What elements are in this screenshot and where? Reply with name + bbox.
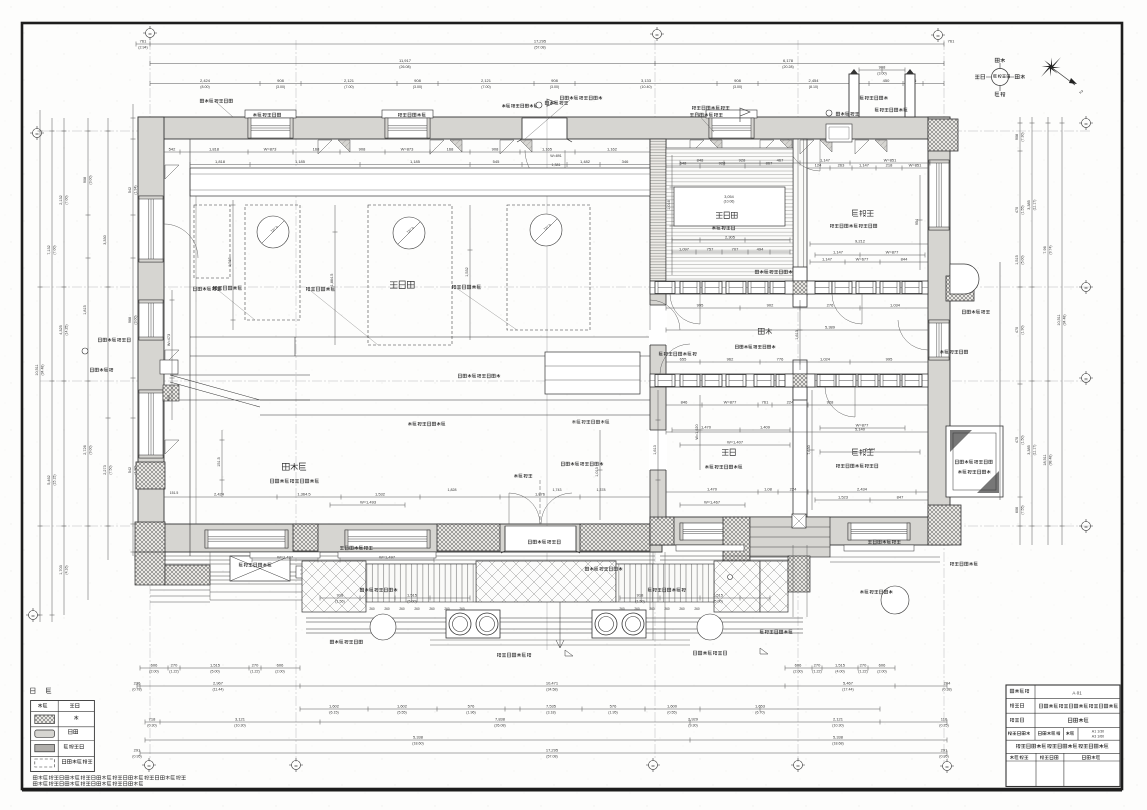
fence line at entrance xyxy=(539,480,541,524)
tree circle far right xyxy=(881,586,909,614)
svg-text:W=1,493: W=1,493 xyxy=(360,500,377,505)
svg-text:(1.55): (1.55) xyxy=(1021,205,1025,214)
svg-text:1,600: 1,600 xyxy=(667,704,678,709)
room label corridor (廊下) xyxy=(758,328,772,335)
svg-text:(2.00): (2.00) xyxy=(149,670,158,674)
svg-text:(9.30): (9.30) xyxy=(688,724,697,728)
svg-text:1,532: 1,532 xyxy=(465,267,469,277)
interior dim row corridor lower xyxy=(666,360,928,365)
room label electrical room (電機室) xyxy=(282,463,306,471)
svg-text:168: 168 xyxy=(313,147,320,152)
svg-text:1,024: 1,024 xyxy=(820,357,831,362)
fence line right xyxy=(999,262,1001,500)
interior dim row under top wall (big room) xyxy=(164,150,650,155)
svg-text:(15.15): (15.15) xyxy=(53,474,57,485)
svg-text:1,016: 1,016 xyxy=(667,200,671,210)
svg-text:(5.00): (5.00) xyxy=(210,670,219,674)
orientation circle diagram xyxy=(992,69,1009,86)
label グレーチング xyxy=(955,460,992,464)
notes line 2 xyxy=(33,782,143,786)
svg-text:W=877: W=877 xyxy=(886,250,900,255)
vertical dim in big room xyxy=(231,200,236,330)
dim row storage/office mid xyxy=(666,490,928,495)
svg-text:(0.95): (0.95) xyxy=(939,755,948,759)
equipment pad 3 xyxy=(507,205,590,330)
svg-text:2,132: 2,132 xyxy=(59,195,63,205)
interior dim office W=877 xyxy=(820,426,905,431)
svg-text:7.96: 7.96 xyxy=(1043,246,1047,253)
dimension row bottom A left xyxy=(140,666,300,671)
svg-text:3,330: 3,330 xyxy=(103,235,107,245)
svg-text:2,929: 2,929 xyxy=(688,717,699,722)
svg-text:1,818: 1,818 xyxy=(215,159,226,164)
svg-text:116: 116 xyxy=(941,717,948,722)
title row5 office name xyxy=(1016,744,1108,748)
svg-text:(3.00): (3.00) xyxy=(413,85,422,89)
entrance paving diamond center xyxy=(476,561,616,602)
svg-text:606: 606 xyxy=(1015,507,1019,513)
center step arrow xyxy=(556,602,564,648)
vdim electrical room right xyxy=(598,430,603,520)
svg-text:(1.95): (1.95) xyxy=(608,711,617,715)
railing line bottom xyxy=(306,618,803,633)
svg-text:291: 291 xyxy=(941,748,948,753)
svg-text:W=877: W=877 xyxy=(724,400,738,405)
crosshatch right end of porch xyxy=(788,556,810,592)
projection lines left porch xyxy=(210,552,650,610)
svg-text:718: 718 xyxy=(149,717,156,722)
svg-text:1,378: 1,378 xyxy=(597,488,606,492)
window right wall 2 xyxy=(929,320,949,360)
axis bubble Y3 right xyxy=(1079,371,1093,385)
vdim specimen room mid xyxy=(333,205,338,345)
svg-text:(57.08): (57.08) xyxy=(534,46,545,50)
cross pillar assembly north xyxy=(793,267,807,307)
steps bottom-left corner xyxy=(150,590,210,602)
big room left inner line xyxy=(189,139,191,556)
svg-text:606: 606 xyxy=(879,663,886,668)
svg-text:908: 908 xyxy=(1015,134,1019,140)
stone blocks at entrance bay xyxy=(293,524,318,551)
room label storage (物置) xyxy=(722,449,735,456)
svg-text:7,535: 7,535 xyxy=(546,704,557,709)
bay window bump right xyxy=(950,264,979,294)
label 管理鋼製 left xyxy=(90,368,112,372)
entrance paving diamond right edge xyxy=(760,561,788,612)
svg-text:1,147: 1,147 xyxy=(822,257,833,262)
svg-text:1,818: 1,818 xyxy=(209,147,220,152)
svg-text:776: 776 xyxy=(777,357,784,362)
stair ramp structure left xyxy=(170,375,310,407)
svg-text:(34.48): (34.48) xyxy=(1063,314,1067,325)
title row3 図面名 xyxy=(1010,718,1024,722)
svg-text:(2.00): (2.00) xyxy=(793,670,802,674)
door arc corridor to tatami xyxy=(670,294,700,324)
windows bottom-right wall xyxy=(680,523,740,540)
svg-text:276: 276 xyxy=(827,303,834,308)
vertical dim right of divider xyxy=(656,390,661,520)
svg-text:W=677: W=677 xyxy=(856,257,870,262)
porch lines right of entrance xyxy=(660,556,790,560)
svg-text:(3.00): (3.00) xyxy=(550,85,559,89)
label 窓台花崗岩製 left xyxy=(98,338,130,342)
svg-text:7,132: 7,132 xyxy=(47,245,51,255)
svg-text:1,470: 1,470 xyxy=(701,425,712,430)
svg-text:260: 260 xyxy=(369,607,375,611)
stone block bottom-left corner xyxy=(135,522,165,560)
pillar box wall2 bottom xyxy=(792,514,806,528)
label 花崗岩製3 xyxy=(760,630,792,634)
svg-text:2,424: 2,424 xyxy=(200,78,211,83)
svg-text:1,013: 1,013 xyxy=(595,467,599,477)
label 窓台木製 top1 xyxy=(253,113,281,117)
svg-text:1,515: 1,515 xyxy=(835,663,846,668)
svg-text:(5.00): (5.00) xyxy=(1021,255,1025,264)
svg-text:(0.95): (0.95) xyxy=(132,755,141,759)
svg-text:(4.00): (4.00) xyxy=(835,670,844,674)
label 排煙コンクリート立間 xyxy=(560,96,602,100)
svg-text:928: 928 xyxy=(827,400,834,405)
stone block right wall low xyxy=(928,505,961,545)
svg-text:7,630: 7,630 xyxy=(807,445,811,455)
label 窓台2 xyxy=(528,540,560,544)
door arc corridor to storage xyxy=(660,344,690,374)
svg-text:2,121: 2,121 xyxy=(833,717,844,722)
label 管理 xyxy=(950,562,978,566)
svg-text:1,147: 1,147 xyxy=(833,250,844,255)
svg-text:(10.30): (10.30) xyxy=(832,724,843,728)
svg-text:918: 918 xyxy=(637,593,644,598)
svg-text:1,743: 1,743 xyxy=(553,488,562,492)
svg-text:846: 846 xyxy=(681,400,688,405)
svg-text:(0.25): (0.25) xyxy=(939,724,948,728)
dim row storage top xyxy=(666,403,928,408)
svg-text:218: 218 xyxy=(886,163,893,168)
svg-text:W=873: W=873 xyxy=(401,147,415,152)
svg-text:(18.60): (18.60) xyxy=(412,742,423,746)
svg-text:(2.00): (2.00) xyxy=(275,670,284,674)
label 窓台花崗岩製 top-left xyxy=(200,99,232,103)
interior dim corridor xyxy=(666,306,928,311)
svg-text:606: 606 xyxy=(151,663,158,668)
legend swatch stone xyxy=(35,715,55,724)
svg-text:954: 954 xyxy=(915,219,919,225)
svg-text:4,325: 4,325 xyxy=(59,325,63,335)
svg-text:1,097: 1,097 xyxy=(679,247,690,252)
tree circle right xyxy=(697,614,723,640)
svg-text:908: 908 xyxy=(879,65,886,70)
svg-text:A3 1/60: A3 1/60 xyxy=(1092,734,1104,738)
wall interior vertical x=793 top (hatched) xyxy=(793,139,807,296)
svg-text:124: 124 xyxy=(815,163,822,168)
vent pipe 2 xyxy=(905,74,915,117)
section flag top 2 xyxy=(740,108,750,122)
axis bubble X1 top xyxy=(143,26,157,40)
svg-text:(10.06): (10.06) xyxy=(724,200,735,204)
bath fixture box xyxy=(826,124,852,142)
svg-text:3,385: 3,385 xyxy=(1027,200,1031,210)
axis bubble Y1 right xyxy=(1079,116,1093,130)
axis bubble Y2 right xyxy=(1079,280,1093,294)
svg-text:1,147: 1,147 xyxy=(820,158,831,163)
room label tatami room xyxy=(716,212,737,219)
svg-text:1,828: 1,828 xyxy=(448,488,457,492)
north star compass xyxy=(1041,57,1061,77)
interior dim row tatami top xyxy=(666,164,793,169)
svg-text:10,511: 10,511 xyxy=(35,364,39,375)
decking stripes right xyxy=(616,564,714,602)
label 踏段2 xyxy=(648,588,685,592)
axis grid lines xyxy=(149,40,151,762)
svg-text:A1 1/30: A1 1/30 xyxy=(1092,730,1104,734)
legend swatch floor board xyxy=(35,745,55,752)
svg-text:17,295: 17,295 xyxy=(534,39,547,44)
dimension row bottom D xyxy=(145,720,947,725)
svg-text:1,185: 1,185 xyxy=(410,159,421,164)
entrance dim small row xyxy=(320,596,470,601)
svg-text:(1.22): (1.22) xyxy=(169,670,178,674)
svg-text:844: 844 xyxy=(901,257,908,262)
door arc corridor to bath xyxy=(832,294,862,324)
title row4 scale xyxy=(1008,732,1030,736)
svg-text:902: 902 xyxy=(767,303,774,308)
svg-text:5,338: 5,338 xyxy=(833,735,844,740)
svg-text:908: 908 xyxy=(83,177,87,183)
svg-text:576: 576 xyxy=(468,704,475,709)
svg-text:470: 470 xyxy=(1015,437,1019,443)
legend swatch equipment base xyxy=(35,759,55,767)
svg-text:2,121: 2,121 xyxy=(344,78,355,83)
svg-text:761: 761 xyxy=(762,400,769,405)
svg-text:2,967: 2,967 xyxy=(213,681,224,686)
svg-text:1,602: 1,602 xyxy=(329,704,340,709)
svg-text:1,613: 1,613 xyxy=(795,330,799,340)
window bottom 1 xyxy=(205,530,288,548)
svg-text:1,532: 1,532 xyxy=(375,492,386,497)
svg-text:1,815: 1,815 xyxy=(83,305,87,315)
leader lines for top labels xyxy=(215,100,714,139)
svg-text:3,133: 3,133 xyxy=(641,78,652,83)
right side porch lines xyxy=(830,557,940,562)
svg-text:1,515: 1,515 xyxy=(210,663,221,668)
svg-text:(14.25): (14.25) xyxy=(65,324,69,335)
svg-text:204: 204 xyxy=(944,681,951,686)
svg-text:(7.00): (7.00) xyxy=(481,85,490,89)
svg-text:260: 260 xyxy=(414,607,420,611)
office inner dim xyxy=(815,498,928,503)
svg-text:606: 606 xyxy=(795,663,802,668)
wall interior vertical x=650 xyxy=(650,139,666,524)
big room inner band (shelf) xyxy=(190,168,650,196)
svg-text:270: 270 xyxy=(814,663,821,668)
door arc big room to corridor xyxy=(650,300,680,330)
axis bubble X2 bottom xyxy=(289,758,303,772)
svg-text:(1.50): (1.50) xyxy=(635,600,644,604)
svg-text:1,034: 1,034 xyxy=(890,303,901,308)
section mark label 2 xyxy=(693,651,726,655)
svg-text:576: 576 xyxy=(610,704,617,709)
wall left exterior xyxy=(138,117,164,560)
label 排煙窓 xyxy=(962,310,989,314)
svg-text:3,121: 3,121 xyxy=(235,717,246,722)
step lines below railing xyxy=(430,640,690,645)
dimension row bottom A right xyxy=(785,666,895,671)
wall interior vertical x=793 bottom xyxy=(793,374,807,517)
vent pipe 1 xyxy=(849,74,859,117)
svg-text:236: 236 xyxy=(134,681,141,686)
room label big room (専用室) xyxy=(390,281,414,289)
svg-text:(7.30): (7.30) xyxy=(1021,132,1025,141)
axis bubble X3 bottom xyxy=(646,758,660,772)
svg-text:1,409: 1,409 xyxy=(760,425,771,430)
corner braces left wall xyxy=(165,165,179,179)
dimension row bottom F xyxy=(140,751,947,756)
svg-text:W=851: W=851 xyxy=(909,163,923,168)
svg-text:995: 995 xyxy=(886,357,893,362)
svg-text:10,471: 10,471 xyxy=(546,681,559,686)
section line vertical x=547 xyxy=(546,105,548,650)
svg-text:(11.44): (11.44) xyxy=(212,688,223,692)
label 窓台木製 left xyxy=(193,287,220,291)
svg-text:270: 270 xyxy=(252,663,259,668)
svg-text:7,838: 7,838 xyxy=(495,717,506,722)
pillars corridor north wall xyxy=(655,282,675,294)
svg-text:(8.00): (8.00) xyxy=(200,85,209,89)
svg-text:5,462: 5,462 xyxy=(47,475,51,485)
svg-text:10,511: 10,511 xyxy=(1057,314,1061,325)
W=1497 labels under windows xyxy=(252,558,318,563)
svg-text:(0.30): (0.30) xyxy=(147,724,156,728)
svg-text:655: 655 xyxy=(680,357,687,362)
svg-text:3,054: 3,054 xyxy=(724,195,734,199)
dimension row top 1 (17,295) xyxy=(136,42,944,47)
svg-text:1,703: 1,703 xyxy=(59,565,63,575)
svg-text:(3.00): (3.00) xyxy=(89,175,93,184)
section mark label 1 xyxy=(497,653,531,657)
svg-text:1,864.5: 1,864.5 xyxy=(330,274,334,287)
svg-text:1,613: 1,613 xyxy=(653,445,657,455)
svg-text:260: 260 xyxy=(399,607,405,611)
svg-text:(3.00): (3.00) xyxy=(877,72,886,76)
svg-text:606: 606 xyxy=(277,663,284,668)
label water filter xyxy=(408,422,445,426)
wall top exterior xyxy=(138,117,950,139)
wall corridor north xyxy=(650,281,928,294)
svg-text:(9.00): (9.00) xyxy=(89,445,93,454)
svg-text:(1.50): (1.50) xyxy=(1021,435,1025,444)
svg-text:1,515: 1,515 xyxy=(713,593,724,598)
svg-text:5,338: 5,338 xyxy=(413,735,424,740)
stone block left wall low xyxy=(136,462,165,489)
svg-text:467: 467 xyxy=(777,158,784,163)
window left 3 xyxy=(139,300,163,340)
svg-text:(7.00): (7.00) xyxy=(65,195,69,204)
svg-text:17,295: 17,295 xyxy=(546,748,559,753)
svg-text:1,165: 1,165 xyxy=(542,147,553,152)
svg-text:2,726: 2,726 xyxy=(83,445,87,455)
tree circle left xyxy=(370,614,396,640)
decking stripes left xyxy=(366,564,476,602)
window sill top 2 xyxy=(382,110,433,118)
bench near divider wall xyxy=(545,352,640,394)
svg-text:542: 542 xyxy=(169,147,176,152)
svg-text:1,147: 1,147 xyxy=(859,163,870,168)
window top 3 xyxy=(709,118,754,138)
svg-text:2,434: 2,434 xyxy=(857,487,868,492)
door arc corridor to office xyxy=(825,387,855,417)
svg-text:(10.40): (10.40) xyxy=(640,85,651,89)
corridor long dim xyxy=(666,328,928,333)
window sill top 1 xyxy=(245,110,296,118)
svg-text:(11.17): (11.17) xyxy=(1033,200,1037,211)
svg-text:(3.00): (3.00) xyxy=(134,315,138,324)
door arc office right xyxy=(898,320,928,350)
svg-text:1,364.5: 1,364.5 xyxy=(297,492,311,497)
tatami room floor stripes xyxy=(666,148,793,281)
label 窓台1 xyxy=(340,546,373,550)
svg-text:542: 542 xyxy=(128,467,132,473)
svg-text:(5.00): (5.00) xyxy=(713,600,722,604)
svg-text:(7.00): (7.00) xyxy=(344,85,353,89)
door top wall (entrance) xyxy=(522,118,567,139)
bath room inner dims xyxy=(815,253,925,258)
label 踏段 xyxy=(360,588,397,592)
svg-text:(1.22): (1.22) xyxy=(812,670,821,674)
label 管理鋼製 xyxy=(836,112,859,116)
label 床シート xyxy=(659,352,696,356)
svg-text:1,482: 1,482 xyxy=(580,159,591,164)
label top2 xyxy=(398,113,426,117)
label 踏段花崗岩製 xyxy=(330,640,362,644)
svg-text:5,467: 5,467 xyxy=(843,681,854,686)
section flag top 1 xyxy=(502,104,538,108)
svg-text:2,454: 2,454 xyxy=(808,78,819,83)
planter circles pair 1 xyxy=(446,610,500,638)
svg-text:(0.78): (0.78) xyxy=(132,688,141,692)
door gap divider wall lower xyxy=(649,430,667,470)
interior dim row big room second xyxy=(190,162,650,167)
svg-text:(26.08): (26.08) xyxy=(399,65,410,69)
svg-text:847: 847 xyxy=(897,495,904,500)
svg-text:260: 260 xyxy=(384,607,390,611)
legend table xyxy=(31,701,95,772)
svg-text:707: 707 xyxy=(732,247,739,252)
axis bubble X5 top xyxy=(931,28,945,42)
svg-text:(17.44): (17.44) xyxy=(842,688,853,692)
window top 2 xyxy=(385,118,430,138)
svg-text:W=891: W=891 xyxy=(550,154,562,158)
crosshatch wing wall bottom-left xyxy=(135,552,165,585)
svg-text:908: 908 xyxy=(492,147,499,152)
entrance double door bottom wall xyxy=(505,526,576,551)
svg-text:494: 494 xyxy=(757,247,764,252)
label フェンス屋 xyxy=(514,474,532,478)
svg-text:(34.58): (34.58) xyxy=(546,688,557,692)
svg-text:260: 260 xyxy=(429,607,435,611)
svg-text:908: 908 xyxy=(277,78,284,83)
label 縁甲板張り xyxy=(239,563,271,567)
svg-text:W=1,407: W=1,407 xyxy=(727,440,744,445)
svg-text:(18.68): (18.68) xyxy=(832,742,843,746)
lower band across big room xyxy=(190,337,650,356)
door swing arc hallway top xyxy=(788,139,820,171)
svg-text:848: 848 xyxy=(697,158,704,163)
dimension row top 2 (11,917 / 6,178) xyxy=(150,61,944,66)
svg-text:18,511: 18,511 xyxy=(1043,454,1047,465)
svg-text:(7.55): (7.55) xyxy=(1021,505,1025,514)
svg-text:1,185: 1,185 xyxy=(295,159,306,164)
label 窓台電機室 xyxy=(270,553,298,557)
